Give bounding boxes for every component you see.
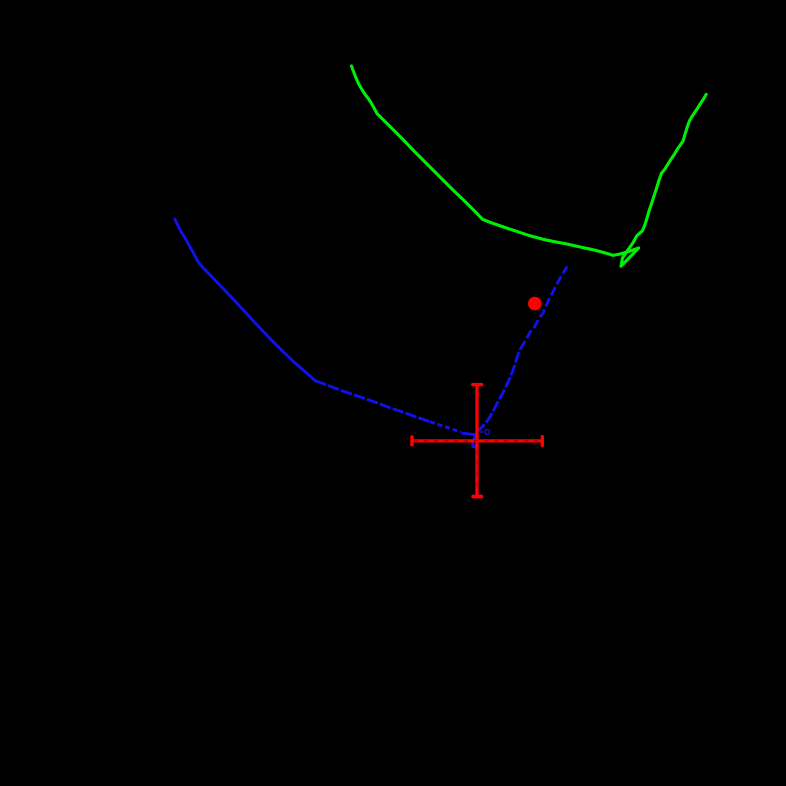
texture dark patches on horizontal red bar	[414, 440, 540, 442]
blue curve solid left segment	[175, 219, 315, 380]
blue dashed rising segment (upper part)	[521, 267, 568, 349]
texture dark patches on vertical red bar	[476, 450, 478, 494]
small blue open circle marker	[485, 430, 490, 435]
blue dashed descending segment (short dashes near minimum)	[430, 422, 461, 432]
tiny blue dot	[480, 431, 482, 433]
blue dashed rising segment (dense lower part)	[477, 349, 521, 432]
red data point	[528, 297, 542, 311]
green curve (solid, hand-drawn, with sliver loop)	[352, 66, 707, 266]
red error bar horizontal line	[412, 439, 542, 442]
red error bar top cap	[473, 383, 482, 386]
red error bar bottom cap	[473, 495, 481, 499]
blue dashed descending segment (long dashes)	[315, 381, 430, 422]
red error bar right cap	[541, 437, 544, 446]
red error bar vertical line	[475, 385, 478, 497]
red error bar left cap	[410, 437, 413, 445]
blue flat end dash before error bar	[463, 433, 475, 434]
blue hook doodle below error bar	[472, 436, 475, 447]
